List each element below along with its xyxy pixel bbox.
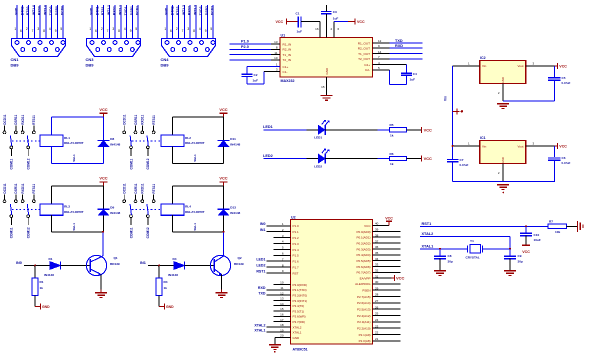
svg-text:6: 6	[170, 29, 172, 33]
connector body CN1	[12, 39, 66, 57]
svg-text:DSR1: DSR1	[130, 6, 134, 15]
wire Y1 to XTAL2 column	[483, 248, 510, 250]
pin 24 P2.3(A11) of U2	[357, 318, 400, 324]
svg-text:P1.7: P1.7	[293, 266, 300, 270]
svg-text:ALE/PROG: ALE/PROG	[355, 282, 371, 286]
svg-text:3: 3	[37, 27, 39, 31]
diode D11	[217, 139, 229, 141]
svg-text:RXD: RXD	[258, 286, 266, 290]
pin 30 ALE/PROG of U2	[355, 280, 400, 286]
svg-text:RL4: RL4	[185, 205, 191, 209]
svg-text:R4: R4	[164, 280, 168, 284]
pin circle top CN4	[177, 41, 181, 45]
svg-text:4: 4	[199, 27, 201, 31]
wire CN3 pin2	[97, 5, 99, 50]
power port on input rail	[453, 110, 460, 112]
svg-text:RXD2: RXD2	[188, 6, 192, 15]
svg-text:9: 9	[130, 29, 132, 33]
svg-text:P0.1(AD1): P0.1(AD1)	[356, 236, 370, 240]
svg-text:SEL1: SEL1	[72, 154, 76, 162]
svg-text:RST: RST	[293, 271, 299, 275]
svg-text:P2.0: P2.0	[241, 45, 249, 49]
svg-text:AT89C51: AT89C51	[293, 348, 308, 352]
wire input rail Vin	[452, 66, 454, 159]
svg-text:RELAY-DPDT: RELAY-DPDT	[64, 210, 84, 214]
svg-text:DB9: DB9	[11, 63, 20, 68]
resistor R1	[34, 266, 36, 279]
pin 25 P2.4(A12) of U2	[357, 312, 401, 318]
wire CN3 pin9	[137, 5, 139, 43]
pin circle top CN4	[165, 41, 169, 45]
pin 8 P1.7 of U2	[256, 263, 299, 269]
diode D1	[50, 262, 61, 270]
power VCC below C10	[525, 236, 527, 246]
svg-text:IN4148: IN4148	[110, 211, 120, 215]
svg-text:3: 3	[187, 27, 189, 31]
svg-text:P2.4(A12): P2.4(A12)	[357, 314, 371, 318]
svg-text:Vout: Vout	[517, 64, 523, 68]
svg-text:VCC: VCC	[424, 156, 432, 161]
relay common contact RL3 COM11	[10, 215, 13, 218]
relay coil RL1	[40, 135, 63, 146]
wire R5 to VCC	[406, 129, 421, 131]
svg-text:RST1: RST1	[256, 269, 265, 273]
svg-text:9: 9	[205, 29, 207, 33]
svg-text:Y1: Y1	[470, 239, 474, 243]
power VCC above RL3	[103, 182, 105, 186]
pin 18 XTAL2 of U2	[254, 323, 301, 329]
svg-text:1: 1	[89, 27, 91, 31]
wire IC2 ground rail	[503, 100, 554, 102]
svg-text:VCC: VCC	[424, 127, 432, 132]
wire pin 6 V- to VCC	[333, 22, 335, 38]
svg-text:P2.0(A8): P2.0(A8)	[359, 339, 371, 343]
pin circle top CN3	[125, 41, 129, 45]
relay contact blade RL2 2	[147, 135, 148, 146]
resistor R4	[158, 266, 160, 279]
pin 19 XTAL1 of U2	[254, 328, 301, 334]
pin circle bottom CN1	[32, 48, 36, 52]
svg-text:COM11: COM11	[129, 158, 133, 169]
wire CN1 pin5	[39, 5, 41, 43]
junction node IC1 input	[452, 145, 454, 147]
wire LED1 to R5	[325, 129, 378, 131]
wire output of IC1	[526, 145, 555, 147]
svg-text:CN1: CN1	[11, 57, 20, 62]
junction node RST1/C10	[525, 225, 527, 227]
svg-text:SEL1: SEL1	[193, 154, 197, 162]
svg-text:P3.2(INT0): P3.2(INT0)	[293, 294, 308, 298]
pin circle bottom CN4	[182, 48, 186, 52]
wire C3 to pin 2 V+	[326, 14, 328, 38]
wire C8 to ground	[439, 259, 441, 271]
wire coil bottom RL4	[172, 215, 174, 232]
transistor driver Q2	[140, 231, 244, 309]
wire input of IC1	[453, 145, 480, 147]
wire bottom rail RL3	[52, 231, 104, 233]
junction collector Q2	[223, 231, 225, 233]
svg-text:1: 1	[14, 27, 16, 31]
svg-text:XTAL2: XTAL2	[254, 323, 265, 327]
relay coil RL3	[40, 204, 63, 215]
wire input IN0	[24, 265, 50, 267]
svg-text:GND: GND	[165, 7, 169, 15]
svg-text:11: 11	[274, 51, 277, 55]
svg-text:RXD1: RXD1	[113, 6, 117, 15]
pin circle bottom CN4	[206, 48, 210, 52]
svg-text:P2.5(A13): P2.5(A13)	[357, 308, 371, 312]
power port GND of R1	[35, 305, 41, 307]
svg-text:P0.2(AD2): P0.2(AD2)	[356, 241, 370, 245]
pin 29 PSEN of U2	[362, 286, 400, 292]
wire top rail RL1	[52, 116, 104, 118]
svg-text:DSR2: DSR2	[205, 6, 209, 15]
wire R1 to GND port	[34, 296, 36, 307]
svg-text:P0.5(AD5): P0.5(AD5)	[356, 259, 370, 263]
power VCC of LED2 row	[421, 156, 423, 162]
diode D13	[217, 208, 229, 210]
svg-text:P0.7(AD7): P0.7(AD7)	[356, 271, 370, 275]
svg-text:7: 7	[182, 29, 184, 33]
svg-text:VCC: VCC	[522, 250, 530, 254]
pin 11 P3.1(TXD) of U2	[258, 286, 307, 292]
svg-text:PSEN: PSEN	[362, 289, 370, 293]
svg-text:IC2: IC2	[480, 56, 486, 60]
svg-text:GND: GND	[325, 67, 329, 75]
junction node XTAL2/C9	[509, 248, 511, 250]
svg-text:XTAL1: XTAL1	[422, 244, 434, 248]
svg-text:DCD2: DCD2	[211, 6, 215, 15]
svg-text:Q2: Q2	[238, 256, 242, 260]
capacitor C2	[242, 73, 253, 75]
transistor Q1	[86, 255, 106, 275]
pin 31 EA/VPP of U2	[360, 274, 405, 281]
svg-text:DCD11: DCD11	[123, 183, 127, 194]
pin 37 P0.2(AD2) of U2	[356, 239, 400, 245]
svg-text:GND: GND	[15, 7, 19, 15]
microcontroller U2 AT89C51 body	[291, 220, 373, 345]
relay common contact RL3 COM12	[27, 215, 30, 218]
pin 23 P2.2(A10) of U2	[357, 324, 401, 330]
wire CN4 pin9	[212, 5, 214, 43]
svg-text:Vin: Vin	[482, 64, 487, 68]
svg-text:IN4148: IN4148	[110, 142, 120, 146]
wire U1 right pin 9	[373, 47, 390, 49]
ground below IC1	[497, 184, 509, 186]
junction node XTAL1/C8	[439, 248, 441, 250]
svg-text:DSR11: DSR11	[134, 114, 138, 124]
svg-text:9: 9	[55, 29, 57, 33]
svg-text:VCC: VCC	[559, 145, 567, 149]
svg-text:GND: GND	[90, 7, 94, 15]
svg-text:P0.6(AD6): P0.6(AD6)	[356, 265, 370, 269]
wire bottom rail RL4	[173, 231, 224, 233]
svg-text:VCC: VCC	[385, 216, 393, 220]
wire CN1 pin7	[51, 5, 53, 43]
power VCC above RL1	[103, 113, 105, 117]
svg-text:P1.0: P1.0	[293, 224, 300, 228]
svg-text:LED1: LED1	[314, 136, 322, 140]
wire GND pin of IC2	[502, 83, 504, 101]
svg-text:COM12: COM12	[146, 227, 150, 238]
diode D4	[174, 262, 185, 270]
pin circle top CN1	[50, 41, 54, 45]
resistor R7	[547, 225, 548, 227]
pin 5 P1.4 of U2	[274, 246, 300, 252]
svg-text:P0.3(AD3): P0.3(AD3)	[356, 247, 370, 251]
wire C3 stub up	[326, 5, 328, 12]
svg-text:COM12: COM12	[146, 158, 150, 169]
resistor R6	[390, 157, 407, 161]
svg-text:LED1: LED1	[256, 258, 265, 262]
wire CN1 pin1	[16, 5, 18, 43]
svg-text:P3.6(WR): P3.6(WR)	[293, 315, 306, 319]
svg-text:GND: GND	[501, 156, 505, 164]
pin 3 P1.2 of U2	[274, 234, 300, 240]
pin circle top CN3	[113, 41, 117, 45]
svg-text:DB9: DB9	[86, 63, 95, 68]
crystal Y1	[467, 245, 469, 252]
wire top rail RL4	[173, 185, 224, 187]
wire C2 to C1- pin	[246, 76, 248, 83]
svg-text:TXD: TXD	[395, 39, 403, 43]
mechanical link dashed line RL4	[132, 209, 161, 211]
svg-text:C3: C3	[333, 10, 337, 14]
svg-text:R7: R7	[549, 220, 553, 224]
wire diode column bottom RL3	[103, 215, 105, 232]
svg-text:VCC: VCC	[364, 224, 371, 228]
relay contact blade RL1 1	[10, 135, 11, 146]
svg-text:U2: U2	[291, 215, 296, 219]
pin circle bottom CN1	[56, 48, 60, 52]
svg-text:COM11: COM11	[10, 158, 14, 169]
pin 13 P3.3(INT1) of U2	[274, 297, 308, 303]
wire diode column bottom RL2	[223, 147, 225, 164]
mechanical link dashed line RL2	[132, 140, 161, 142]
svg-text:DCD11: DCD11	[123, 114, 127, 125]
wire U1 left pin 13	[271, 43, 280, 45]
svg-text:COM12: COM12	[27, 227, 31, 238]
wire IC1 bottom rail	[453, 180, 555, 182]
wire CN3 pin8	[131, 5, 133, 50]
wire CN4 pin3	[178, 5, 180, 43]
svg-text:P1.5: P1.5	[293, 254, 300, 258]
wire U1 right pin 12	[373, 42, 390, 44]
relay contact blade RL2 1	[130, 135, 131, 146]
svg-text:RTS11: RTS11	[32, 184, 36, 194]
wire U1 left pin 8	[271, 48, 280, 50]
svg-text:P2.2(A10): P2.2(A10)	[357, 327, 371, 331]
svg-text:D8: D8	[110, 137, 114, 141]
svg-text:8: 8	[118, 29, 120, 33]
svg-text:10: 10	[274, 56, 278, 60]
svg-text:IN0: IN0	[16, 261, 22, 265]
wire U1 left pin 11	[271, 54, 280, 56]
wire CN1 pin4	[33, 5, 35, 50]
svg-text:U1: U1	[281, 34, 286, 38]
svg-text:P1.3: P1.3	[293, 242, 300, 246]
wire D4 to base	[185, 265, 215, 267]
capacitor C5	[553, 66, 555, 77]
diode D8	[97, 139, 109, 141]
svg-text:T1_IN: T1_IN	[283, 53, 291, 57]
svg-text:16: 16	[315, 27, 319, 31]
svg-text:P1.1: P1.1	[293, 230, 300, 234]
pin circle top CN3	[136, 41, 140, 45]
svg-text:MAX232: MAX232	[281, 79, 295, 83]
svg-text:C1+: C1+	[283, 65, 289, 69]
wire emitter of Q1	[100, 275, 102, 290]
wire coil left vertical RL2	[172, 117, 174, 135]
pin 27 P2.6(A14) of U2	[357, 299, 401, 305]
svg-text:Vin: Vin	[482, 144, 487, 148]
svg-text:1uF: 1uF	[333, 17, 339, 21]
wire C2+ to C4	[373, 64, 407, 66]
wire XTAL1 net	[420, 248, 468, 250]
svg-text:Vout: Vout	[517, 144, 523, 148]
wire CN1 pin3	[28, 5, 30, 43]
power VCC right of IC2	[554, 65, 557, 67]
mechanical link dashed line RL1	[12, 140, 40, 142]
ground below IC2	[497, 103, 509, 105]
pin 6 P1.5 of U2	[274, 252, 300, 258]
ground below C8	[434, 270, 446, 272]
ground below Q2	[221, 290, 223, 293]
svg-text:IN1: IN1	[260, 228, 266, 232]
svg-text:1uF: 1uF	[297, 30, 303, 34]
svg-text:3: 3	[112, 27, 114, 31]
svg-text:D1: D1	[49, 257, 53, 261]
svg-text:GND: GND	[501, 76, 505, 84]
relay block RL3	[3, 176, 121, 239]
junction node IN0	[34, 265, 36, 267]
relay common contact RL2 COM11	[130, 146, 133, 149]
connector body CN3	[87, 39, 141, 57]
svg-text:P2.1(A9): P2.1(A9)	[359, 333, 371, 337]
regulator IC2 body	[480, 60, 526, 83]
pin 20 GND of U2	[275, 334, 300, 340]
svg-text:COM11: COM11	[129, 227, 133, 238]
wire CN4 pin6	[195, 5, 197, 50]
svg-text:C6: C6	[562, 156, 566, 160]
svg-text:VCC: VCC	[219, 107, 227, 112]
wire diode column bottom RL1	[103, 147, 105, 164]
svg-text:TXD0: TXD0	[49, 6, 53, 15]
svg-text:P3.3(INT1): P3.3(INT1)	[293, 299, 308, 303]
relay common contact RL4 COM12	[147, 215, 150, 218]
wire CN3 pin7	[126, 5, 128, 43]
svg-text:BD139: BD139	[234, 262, 244, 266]
svg-text:GND: GND	[166, 305, 174, 309]
pin 22 P2.1(A9) of U2	[359, 331, 401, 337]
svg-text:P2.6(A14): P2.6(A14)	[357, 301, 371, 305]
svg-text:15: 15	[321, 85, 325, 89]
svg-text:RL3: RL3	[64, 205, 70, 209]
svg-text:LED1: LED1	[263, 125, 273, 129]
svg-text:COM12: COM12	[27, 158, 31, 169]
relay contact blade RL4 1	[130, 204, 131, 215]
wire R7 to ground	[567, 225, 578, 227]
diode D9	[97, 208, 109, 210]
svg-text:RXD11: RXD11	[21, 183, 25, 193]
svg-text:RXD11: RXD11	[21, 114, 25, 124]
svg-text:DCD0: DCD0	[61, 6, 65, 15]
wire CN4 pin7	[201, 5, 203, 43]
pin circle top CN3	[90, 41, 94, 45]
svg-text:IN0: IN0	[260, 222, 266, 226]
wire collector of Q2	[223, 232, 225, 256]
svg-text:5: 5	[60, 27, 62, 31]
svg-text:D11: D11	[230, 137, 236, 141]
svg-text:2: 2	[176, 27, 178, 31]
pin 34 P0.5(AD5) of U2	[356, 257, 400, 263]
svg-text:TXD: TXD	[258, 292, 266, 296]
svg-text:7: 7	[32, 29, 34, 33]
pin circle top CN1	[61, 41, 65, 45]
wire U1 right pin 14	[373, 53, 390, 55]
svg-text:IN4148: IN4148	[168, 273, 178, 277]
pin circle top CN3	[102, 41, 106, 45]
svg-text:VCC: VCC	[219, 176, 227, 181]
svg-text:D4: D4	[173, 257, 177, 261]
capacitor C9	[509, 249, 511, 255]
wire RST1 net	[420, 225, 547, 227]
svg-text:D9: D9	[110, 206, 114, 210]
svg-text:RXD11: RXD11	[141, 183, 145, 193]
svg-text:DTR0: DTR0	[20, 6, 24, 15]
LED row LED2	[263, 149, 432, 169]
svg-text:R6: R6	[390, 152, 394, 156]
svg-text:P0.0(AD0): P0.0(AD0)	[356, 230, 370, 234]
relay common contact RL4 COM11	[130, 215, 133, 218]
ground below Q1	[100, 290, 102, 293]
wire collector of Q1	[102, 232, 104, 256]
svg-text:GND: GND	[42, 305, 50, 309]
svg-text:P3.0(RXD): P3.0(RXD)	[293, 283, 308, 287]
pin circle bottom CN3	[107, 48, 111, 52]
wire output of IC2	[526, 65, 555, 67]
svg-text:TXD2: TXD2	[199, 6, 203, 15]
wire diode column top RL3	[103, 186, 105, 209]
regulator IC1 body	[480, 140, 526, 163]
svg-text:VCC: VCC	[396, 276, 405, 281]
svg-text:1uF: 1uF	[253, 79, 259, 83]
svg-text:C1-: C1-	[283, 70, 288, 74]
pin circle bottom CN1	[44, 48, 48, 52]
svg-text:2: 2	[101, 27, 103, 31]
pin 10 P3.0(RXD) of U2	[274, 281, 308, 287]
svg-text:P1.2: P1.2	[293, 236, 300, 240]
wire coil left vertical RL1	[51, 117, 53, 135]
capacitor C6	[553, 146, 555, 157]
svg-text:P1.0: P1.0	[241, 40, 249, 44]
svg-text:TXD1: TXD1	[124, 6, 128, 15]
pin circle bottom CN3	[131, 48, 135, 52]
svg-text:C2: C2	[254, 73, 258, 77]
svg-text:0.47uF: 0.47uF	[460, 163, 469, 167]
svg-text:5: 5	[210, 27, 212, 31]
pin 35 P0.4(AD4) of U2	[356, 251, 400, 257]
wire CN4 pin4	[183, 5, 185, 50]
relay coil RL4	[161, 204, 184, 215]
svg-text:R2_IN: R2_IN	[283, 48, 292, 52]
resistor R5	[390, 128, 407, 132]
wire coil bottom RL3	[51, 215, 53, 232]
svg-text:INT2.1: INT2.1	[118, 5, 122, 15]
svg-text:CN4: CN4	[161, 57, 170, 62]
mechanical link dashed line RL3	[12, 209, 40, 211]
pin 14 P3.4(T0) of U2	[274, 302, 305, 308]
